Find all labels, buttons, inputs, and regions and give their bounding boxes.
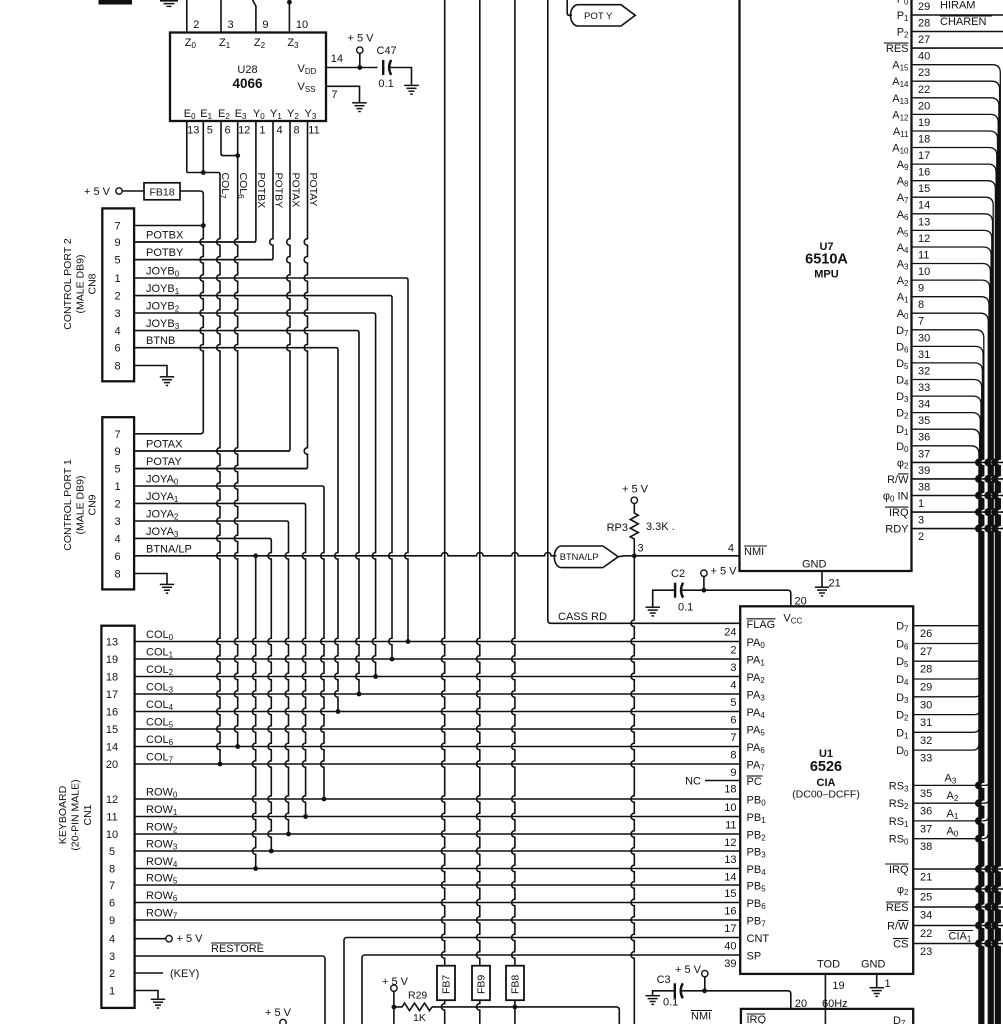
wire COL7 bus vertical [217,175,220,765]
svg-text:POTAY: POTAY [307,173,319,207]
ground (keyboard) [151,999,165,1008]
label CONTROL PORT 1 [62,459,99,551]
label JOYA2 [146,509,179,522]
svg-text:TOD: TOD [817,959,840,971]
wire C47 to ground [389,68,411,85]
svg-text:JOYB1: JOYB1 [146,283,180,296]
U1 right pin names and numbers [885,621,932,958]
svg-text:4: 4 [109,934,115,946]
label A2 [947,790,959,803]
wire POTBX (Y0 pin1 to CN8 pin9) [134,121,256,242]
wire JOYA1 [134,503,306,816]
svg-text:38: 38 [918,481,930,493]
svg-text:+ 5 V: + 5 V [711,566,738,578]
wire FB7 vertical bus [441,0,444,966]
wire CASS RD vertical + row [548,0,740,623]
svg-text:6: 6 [109,898,115,910]
label COL0 [146,629,174,642]
op IC U7 6510A MPU [740,0,912,571]
svg-text:1: 1 [114,481,120,493]
wire JOYA0 [134,486,324,799]
label POTAX row [146,439,183,451]
op IC U2 (CIA2, cut at bottom) [741,1009,913,1024]
svg-text:U28: U28 [237,64,257,76]
svg-text:RESTORE: RESTORE [211,943,264,955]
wire CN8 pin8 to ground [134,366,167,377]
svg-text:23: 23 [918,67,930,79]
wire +5V to U1 VCC pin20 [681,590,791,606]
svg-text:13: 13 [106,637,118,649]
svg-text:9: 9 [730,767,736,779]
ferrite bead FB9 [472,966,490,1001]
label BTNB [146,335,175,347]
label pin 1 [885,978,891,990]
ground (VSS U28) [352,103,367,112]
wire U7 RDY row [912,528,1003,530]
label pin 20 (U2 VCC) [795,998,807,1010]
svg-text:HIRAM: HIRAM [940,0,975,12]
svg-text:26: 26 [920,628,932,640]
svg-text:22: 22 [918,84,930,96]
svg-text:5: 5 [114,464,120,476]
label A1 [947,808,959,821]
U1 address hooks RS3-RS0 [913,779,990,838]
svg-text:30: 30 [920,699,932,711]
wire POTAY row [134,468,307,470]
wire C3 left to ground [653,991,675,995]
ground (U7) [815,587,829,596]
flag BTNA/LP [554,546,618,568]
svg-text:18: 18 [724,784,736,796]
label POTBY [272,173,284,209]
svg-text:19: 19 [832,980,844,992]
svg-text:33: 33 [918,382,930,394]
capacitor C47 [377,45,397,90]
svg-text:FB7: FB7 [441,975,453,994]
wire ROW2 row (keyboard to CIA PB2) [135,833,741,835]
wire LP vertical down [631,556,634,1024]
svg-text:BTNB: BTNB [146,335,175,347]
node JOYB2/COL2 [373,674,378,679]
+5V supply (RP3) [622,484,649,504]
wire keyboard pin4 +5V [135,933,204,945]
wire COL1 row (keyboard to CIA PA1) [135,658,741,660]
svg-text:11: 11 [106,812,117,824]
label COL7 [218,173,231,200]
label COL6 [236,173,249,200]
svg-text:2: 2 [114,498,120,510]
svg-text:32: 32 [920,735,932,747]
svg-text:C2: C2 [671,568,685,580]
svg-text:P0: P0 [897,0,909,6]
wire FB8 below bead [514,1000,516,1024]
pin number 3 (Z1) [228,19,234,31]
svg-text:(KEY): (KEY) [170,968,199,980]
wire FB18 corner into CN9 pin7 [134,431,203,434]
wire +5V to R29 node [393,991,395,1024]
wire P2 row [912,31,1003,33]
wire COL6 bus vertical (E3 pin12) [234,121,237,747]
svg-text:12: 12 [106,794,118,806]
label 60Hz [822,998,848,1010]
wire SP net [362,955,740,1024]
wire U7 PHI0-IN row [912,495,1003,497]
pin number 9 (Z2) [262,19,268,31]
svg-text:19: 19 [918,117,930,129]
label RESTORE [211,943,264,955]
U1 data bus hooks D7-D0 [913,620,984,750]
svg-text:MPU: MPU [814,269,839,281]
svg-text:CONTROL PORT 2: CONTROL PORT 2 [62,238,74,330]
svg-text:37: 37 [920,823,932,835]
wire POTBY (Y1 pin4 to CN8 pin5) [134,121,273,260]
svg-text:15: 15 [918,183,930,195]
wire U1 RES row [913,906,1003,908]
svg-text:2: 2 [918,531,924,543]
connector CN1 keyboard (20-pin male) [101,626,134,1008]
U28 bottom pin numbers [187,125,320,137]
wire E0 pin13 [186,121,188,173]
svg-text:POTBY: POTBY [146,247,184,259]
wire POTBY row [134,259,273,261]
label HIRAM [940,0,975,12]
svg-text:34: 34 [920,910,932,922]
wire VDD pin14 to +5V node [326,67,378,69]
label pin 19 [832,980,844,992]
svg-text:4: 4 [276,125,282,137]
label pin 3 (RP3 node) [638,543,644,555]
label BTNA/LP [146,543,192,555]
svg-text:3: 3 [918,515,924,527]
ground (U1) [870,988,885,997]
ground (CN9) [160,584,174,593]
label ROW4 [146,856,178,869]
label COL1 [146,647,174,660]
wire COL5 row (keyboard to CIA PA5) [135,728,741,730]
svg-text:C47: C47 [377,45,397,57]
svg-text:32: 32 [918,365,930,377]
label pin 20 (VCC) [795,596,807,608]
svg-text:21: 21 [920,872,932,884]
svg-text:FB8: FB8 [510,975,522,994]
svg-text:35: 35 [918,415,930,427]
node BTNA/LP / RP3 / NMI [632,553,637,558]
label COL7 [146,752,174,765]
node JOYA2/ROW2 [286,832,291,837]
wire E1 pin5 [202,121,204,173]
wire VSS pin7 to ground [326,86,360,102]
svg-text:POT Y: POT Y [584,11,613,22]
label COL3 [146,682,174,695]
label POTBY row [146,247,184,259]
svg-text:39: 39 [724,958,736,970]
svg-text:15: 15 [724,888,736,900]
ground (C2) [646,607,661,616]
node BTNA/ROW4 junction [253,553,258,558]
svg-text:GND: GND [861,959,886,971]
svg-text:5: 5 [114,255,120,267]
wire U7 GND pin21 [821,571,823,587]
svg-text:CN8: CN8 [87,273,99,294]
wire U1 R/W row [913,925,1003,927]
svg-text:C3: C3 [657,974,671,986]
svg-text:CS: CS [893,939,908,951]
svg-text:φ0 IN: φ0 IN [883,491,909,504]
node JOYA1/ROW1 [303,814,308,819]
node ROW4 join [253,866,258,871]
wire E2 pin6 [221,121,238,156]
svg-text:16: 16 [106,707,118,719]
svg-text:17: 17 [724,923,736,935]
svg-text:13: 13 [187,125,199,137]
svg-text:22: 22 [920,928,932,940]
svg-text:8: 8 [114,569,120,581]
svg-text:5: 5 [109,846,115,858]
svg-text:39: 39 [918,465,930,477]
wire U1 IRQ row [913,868,1003,870]
wire ROW4 row (keyboard to CIA PB4) [135,868,741,870]
wire Z1 pin 3 [220,0,222,33]
svg-text:POTAX: POTAX [289,173,301,208]
svg-text:28: 28 [918,18,930,30]
svg-text:1: 1 [885,978,891,990]
svg-text:3: 3 [114,516,120,528]
svg-text:5: 5 [730,697,736,709]
label ROW6 [146,890,178,903]
node C3/+5V [702,988,707,993]
label 3.3K [646,521,675,533]
svg-text:GND: GND [802,559,827,571]
label CHAREN [940,16,992,28]
svg-text:9: 9 [262,19,268,31]
address bus A15-A0 (to bus verticals) [912,65,1001,1024]
svg-text:13: 13 [724,854,736,866]
wire ROW6 row (keyboard to CIA PB6) [135,902,741,904]
label JOYB2 [146,301,180,314]
svg-text:+ 5 V: + 5 V [265,1007,292,1019]
svg-text:1: 1 [114,273,120,285]
svg-text:7: 7 [109,880,115,892]
svg-text:(20-PIN MALE): (20-PIN MALE) [70,779,82,850]
label JOYB3 [146,318,180,331]
node R29/+5V [392,1005,397,1010]
wire U7 IRQ row [912,511,1003,513]
pin number 7 (VSS) [331,89,337,101]
svg-text:RES: RES [886,902,909,914]
svg-text:10: 10 [724,802,736,814]
wire ROW1 row (keyboard to CIA PB1) [135,816,741,818]
node E2/E3 join [235,153,240,158]
wire keyboard pin1 to ground [135,991,158,999]
svg-text:(DC00–DCFF): (DC00–DCFF) [792,789,860,801]
svg-text:JOYB3: JOYB3 [146,318,180,331]
wire ROW5 row (keyboard to CIA PB5) [135,884,741,886]
svg-text:(MALE DB9): (MALE DB9) [75,476,87,535]
label ROW7 [146,908,178,921]
svg-text:18: 18 [918,134,930,146]
svg-text:0.1: 0.1 [678,602,693,614]
svg-text:RP3: RP3 [607,522,628,534]
svg-text:3: 3 [114,308,120,320]
svg-text:30: 30 [918,332,930,344]
svg-text:+ 5 V: + 5 V [622,484,649,496]
+5V supply (R29) [382,976,409,991]
svg-text:IRQ: IRQ [889,864,909,876]
wire POTBX row [134,241,256,243]
wire JOYB3 [134,331,359,694]
svg-text:BTNA/LP: BTNA/LP [560,552,599,562]
wire U7 PHI2 row [912,461,1003,463]
svg-text:5: 5 [207,125,213,137]
svg-text:9: 9 [109,915,115,927]
svg-text:6510A: 6510A [805,252,848,268]
svg-text:12: 12 [724,837,736,849]
wire +5V to FB18 [122,190,144,192]
label COL4 [146,699,174,712]
svg-text:23: 23 [920,946,932,958]
wire POT Y stub [567,0,572,15]
svg-text:FB18: FB18 [149,187,174,199]
wire R29 to FB8 and corner down [432,1007,619,1024]
svg-text:FB9: FB9 [476,975,488,994]
svg-text:3: 3 [228,19,234,31]
ground (C3) [645,996,660,1005]
connector CN9 control port 1 (male DB9) [102,417,134,589]
label KEYBOARD [57,779,94,850]
svg-text:40: 40 [918,51,930,63]
svg-text:14: 14 [106,742,118,754]
svg-text:6: 6 [224,125,230,137]
svg-text:34: 34 [918,399,930,411]
wire Z0 pin 2 [186,0,188,33]
ground (top, partially cut) [160,1,178,7]
wire RESTORE (pin3) [135,956,325,1024]
svg-text:31: 31 [920,717,932,729]
wire JOYB2 [134,313,376,677]
label POTBX [255,173,267,209]
svg-text:19: 19 [106,654,118,666]
flag POT Y [571,5,636,26]
svg-text:6526: 6526 [810,759,842,775]
svg-text:RES: RES [886,43,909,55]
svg-text:3: 3 [109,951,115,963]
wire C2 left to ground [653,590,675,606]
node FB8/R29 [513,1005,518,1010]
svg-text:40: 40 [724,941,736,953]
svg-text:7: 7 [114,221,120,233]
wire (KEY) pin2 [135,968,200,980]
svg-text:9: 9 [114,446,120,458]
wire ROW7 row (keyboard to CIA PB7) [135,919,741,921]
label POTBX row [146,230,184,242]
label CASS RD [558,611,607,623]
svg-text:CIA: CIA [817,777,836,789]
svg-text:2: 2 [109,968,115,980]
label JOYB1 [146,283,180,296]
wire U1 PHI2 row [913,888,1003,890]
+5V supply (U28) [348,33,375,68]
svg-text:3: 3 [730,662,736,674]
ground (C47) [404,85,419,94]
node E0/E1 join [201,170,206,175]
svg-text:R/W: R/W [887,474,909,486]
svg-text:9: 9 [114,237,120,249]
svg-text:1: 1 [109,986,115,998]
svg-text:16: 16 [918,167,930,179]
wire FB9 below bead [476,1000,479,1024]
svg-text:4066: 4066 [232,76,263,91]
wire Z2 pin 9 [253,0,256,33]
svg-text:16: 16 [724,906,736,918]
pin number 2 (Z0) [193,19,199,31]
svg-text:+ 5 V: + 5 V [675,964,702,976]
svg-text:6: 6 [730,715,736,727]
label JOYA3 [146,526,179,539]
svg-text:6: 6 [114,343,120,355]
svg-text:0.1: 0.1 [663,997,678,1009]
node +5V at CN8 pin7 [201,223,206,228]
svg-text:0.1: 0.1 [378,78,393,90]
svg-text:CASS RD: CASS RD [558,611,607,623]
label pin 21 [829,578,841,590]
data bus D7-D0 (to bus verticals) [912,330,984,1024]
wire FB7 below bead [441,1000,444,1024]
svg-text:FLAG: FLAG [747,619,776,631]
wire COL2 row (keyboard to CIA PA2) [135,676,741,678]
label JOYA0 [146,474,179,487]
svg-text:10: 10 [296,19,308,31]
svg-text:29: 29 [920,682,932,694]
svg-text:NMI: NMI [691,1011,711,1023]
svg-text:3.3K .: 3.3K . [646,521,675,533]
wire POTAY (Y3 pin11 to CN9 pin5) [134,121,307,469]
svg-text:10: 10 [106,829,118,841]
wire BTNB [134,348,338,712]
wire U1 GND pin1 [876,974,878,987]
pin number 14 [331,53,343,65]
wire JOYA2 [134,521,288,834]
svg-text:27: 27 [918,34,930,46]
pin number 10 (Z3) [296,19,308,31]
label ROW1 [146,804,178,817]
wire flag to NMI pin4 [618,555,739,558]
node JOYB1/COL1 [390,657,395,662]
wire CN9 pin8 to ground [134,574,167,585]
svg-text:28: 28 [920,664,932,676]
+5V supply (C3) [675,964,708,991]
svg-text:8: 8 [730,750,736,762]
svg-text:36: 36 [920,806,932,818]
label CONTROL PORT 2 [62,238,99,330]
node C2/+5V/VCC [702,588,707,593]
svg-text:IRQ: IRQ [747,1014,767,1024]
wire FB18 to control ports +5V [180,191,203,431]
wire ROW0 row (keyboard to CIA PB0) [135,798,741,800]
svg-text:+ 5 V: + 5 V [177,933,204,945]
svg-text:CNT: CNT [747,933,770,945]
svg-text:10: 10 [918,266,930,278]
svg-text:12: 12 [918,233,930,245]
svg-text:CHAREN: CHAREN [940,16,987,28]
node COL7 to keyboard row [218,762,223,767]
svg-text:20: 20 [918,100,930,112]
label RP3 [607,522,628,534]
svg-text:12: 12 [238,125,250,137]
wire CN8 pin7 +5V [134,225,203,227]
svg-text:21: 21 [829,578,841,590]
op IC U1 6526 CIA [740,606,913,974]
svg-text:31: 31 [918,349,930,361]
